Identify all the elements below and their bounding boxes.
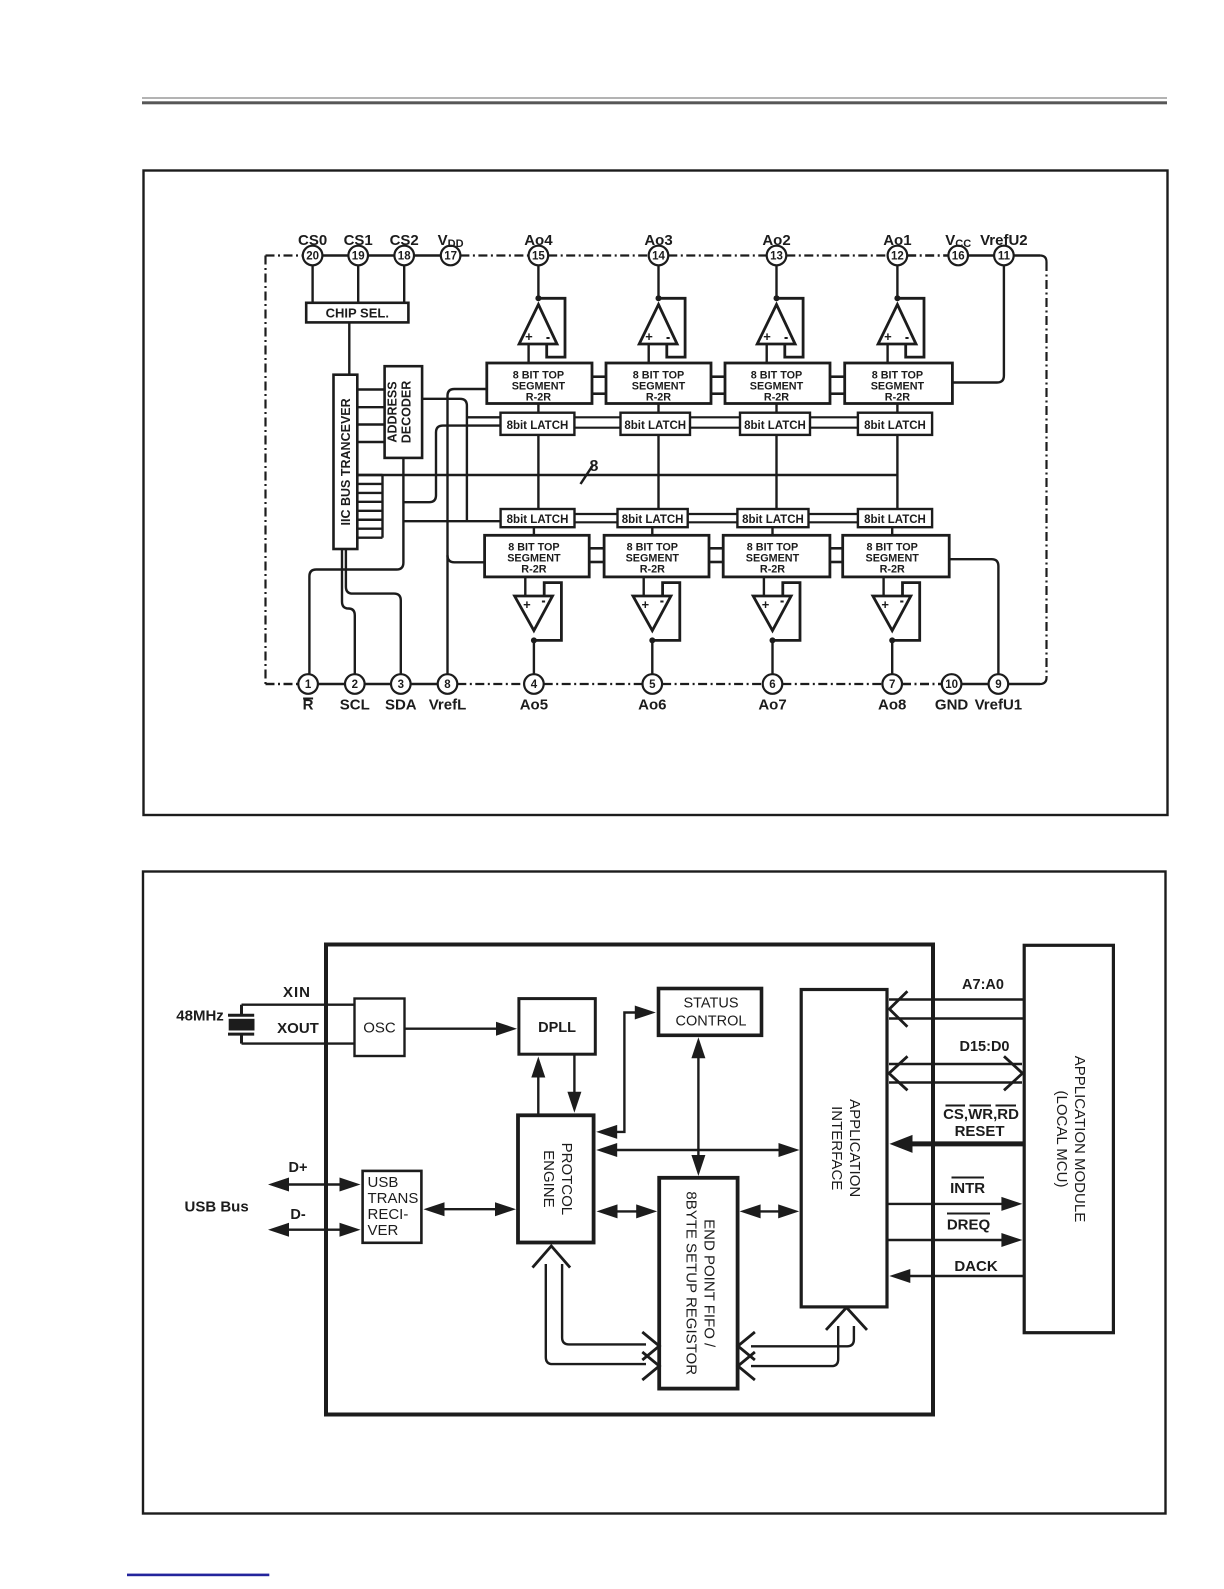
svg-text:VrefU2: VrefU2 [980, 232, 1028, 249]
svg-text:11: 11 [998, 251, 1011, 263]
svg-text:VrefU1: VrefU1 [975, 697, 1023, 714]
svg-text:D-: D- [290, 1207, 305, 1223]
pin 5 Ao6 [638, 674, 666, 713]
pin 13 Ao2 [762, 232, 790, 265]
block 8bit LATCH (top row, col 1) [501, 413, 575, 435]
svg-text:Ao1: Ao1 [883, 232, 911, 249]
wire latch to R-2R (bottom col 1) [533, 527, 535, 535]
svg-text:TRANS: TRANS [368, 1190, 419, 1207]
svg-text:XOUT: XOUT [277, 1020, 319, 1037]
pin 15 Ao4 [524, 232, 553, 265]
svg-text:D+: D+ [289, 1160, 308, 1176]
svg-text:13: 13 [770, 251, 783, 263]
svg-text:(LOCAL MCU): (LOCAL MCU) [1053, 1091, 1070, 1188]
svg-text:RECI-: RECI- [368, 1206, 409, 1223]
wire protocol engine to endpoint fifo [597, 1204, 658, 1218]
pin 16 Vcc (power) [945, 232, 971, 265]
op-amp A7 (output buffer Ao7) [753, 577, 800, 674]
svg-text:4: 4 [531, 679, 538, 691]
wire R-2R to latch (col 3) [775, 404, 777, 413]
wire XIN [242, 984, 355, 1005]
svg-text:PROTCOL: PROTCOL [558, 1143, 575, 1216]
pin 9 VrefU1 [975, 674, 1023, 713]
wire latch to lower latch through bus (col 4) [896, 435, 898, 509]
wire top rail [322, 256, 1046, 685]
block 8bit LATCH (bottom row, col 4) [858, 509, 932, 527]
svg-text:DACK: DACK [954, 1258, 997, 1275]
block PROTCOL ENGINE [518, 1115, 594, 1242]
wire CS0 to chip select [311, 265, 313, 303]
latch chain links (bottom row) [575, 514, 858, 522]
svg-text:15: 15 [532, 251, 545, 263]
svg-text:19: 19 [352, 251, 365, 263]
svg-text:8bit LATCH: 8bit LATCH [624, 420, 686, 432]
svg-text:5: 5 [649, 679, 656, 691]
wire SDA from IIC to pin 3 [346, 549, 401, 674]
op-amp A4 (output buffer Ao1) [878, 265, 924, 363]
wire protocol engine to application interface [596, 1143, 799, 1157]
svg-text:12: 12 [891, 251, 904, 263]
block 8 BIT TOP SEGMENT R-2R (top row, col 1) [487, 363, 592, 404]
op-amp A5 (output buffer Ao5) [515, 577, 562, 674]
svg-text:CHIP SEL.: CHIP SEL. [326, 306, 389, 321]
svg-text:9: 9 [995, 679, 1001, 691]
wire latch to R-2R (bottom col 4) [891, 527, 893, 535]
svg-text:7: 7 [889, 679, 895, 691]
svg-text:R-2R: R-2R [764, 392, 789, 404]
pin 3 SDA [385, 674, 417, 713]
svg-text:8BYTE SETUP REGISTOR: 8BYTE SETUP REGISTOR [682, 1191, 699, 1375]
svg-text:END POINT FIFO /: END POINT FIFO / [700, 1219, 717, 1348]
svg-text:R-2R: R-2R [640, 564, 665, 576]
pin 1 R (reset, active low) [298, 674, 318, 713]
block 8bit LATCH (top row, col 4) [858, 413, 932, 435]
svg-text:17: 17 [444, 251, 457, 263]
wire USB transceiver to protocol engine [424, 1202, 517, 1216]
pin 10 GND (ground) [935, 674, 969, 713]
R-2R chain links (top row) [592, 377, 845, 394]
svg-text:XIN: XIN [283, 984, 311, 1001]
svg-text:6: 6 [769, 679, 775, 691]
chip outline (dash-dot boundary) [266, 256, 303, 685]
block 8bit LATCH (top row, col 2) [621, 413, 691, 435]
svg-text:Ao2: Ao2 [762, 232, 790, 249]
block APPLICATION INTERFACE [801, 990, 887, 1307]
svg-text:3: 3 [398, 679, 404, 691]
wire CS1 to chip select [357, 265, 359, 303]
svg-text:STATUS: STATUS [683, 996, 738, 1012]
svg-text:18: 18 [398, 251, 411, 263]
svg-text:INTR: INTR [950, 1180, 985, 1197]
wire OSC to DPLL [405, 1022, 518, 1036]
block 8bit LATCH (bottom row, col 3) [737, 509, 808, 527]
svg-text:R-2R: R-2R [880, 564, 905, 576]
wire D- [268, 1207, 361, 1237]
wire chip select to IIC bus tranceiver [348, 322, 350, 374]
pin 2 SCL [340, 674, 370, 713]
pin 20 CS0 [298, 232, 327, 265]
op-amp A6 (output buffer Ao6) [633, 577, 680, 674]
crystal X1 48MHz [176, 1005, 254, 1044]
bus A7:A0 [889, 977, 1024, 1027]
pin 17 VDD (power) [438, 232, 464, 265]
svg-text:DPLL: DPLL [538, 1020, 576, 1036]
USB controller chip boundary box [326, 945, 933, 1415]
svg-text:Ao3: Ao3 [644, 232, 672, 249]
pin 14 Ao3 [644, 232, 672, 265]
wires IIC to address decoder (4 lines) [357, 390, 384, 443]
svg-text:8bit LATCH: 8bit LATCH [507, 420, 569, 432]
block 8bit LATCH (bottom row, col 1) [501, 509, 575, 527]
svg-text:RESET: RESET [955, 1123, 1005, 1140]
svg-text:DREQ: DREQ [947, 1217, 991, 1234]
svg-text:Ao5: Ao5 [520, 697, 548, 714]
svg-text:8bit LATCH: 8bit LATCH [622, 514, 684, 526]
svg-text:8: 8 [444, 679, 451, 691]
pin 8 VrefL [429, 674, 467, 713]
svg-text:20: 20 [306, 251, 319, 263]
wire endpoint fifo to protocol engine (hook arrow) [533, 1246, 660, 1380]
wire latch to R-2R (bottom col 3) [771, 527, 773, 535]
svg-text:10: 10 [945, 679, 958, 691]
svg-text:2: 2 [352, 679, 358, 691]
block 8bit LATCH (top row, col 3) [740, 413, 810, 435]
svg-text:+: + [642, 597, 650, 612]
svg-text:8bit LATCH: 8bit LATCH [864, 420, 926, 432]
label USB Bus [185, 1199, 249, 1216]
svg-text:SDA: SDA [385, 697, 417, 714]
wire main 8-bit bus [357, 474, 897, 476]
wire XOUT [242, 1020, 355, 1044]
block 8 BIT TOP SEGMENT R-2R (top row, col 3) [725, 363, 830, 404]
block STATUS CONTROL [659, 989, 762, 1036]
header double rule [142, 98, 1167, 104]
wire protocol engine to status control [596, 1006, 656, 1139]
wire endpoint fifo to application interface [740, 1204, 800, 1218]
pin 7 Ao8 [878, 674, 906, 713]
svg-text:VrefL: VrefL [429, 697, 467, 714]
pin 19 CS1 [344, 232, 373, 265]
block 8 BIT TOP SEGMENT R-2R (bottom row, col 4) [843, 535, 950, 577]
wire bundle 8-bit bus fan-out from IIC [357, 475, 382, 538]
pin 4 Ao5 [520, 674, 548, 713]
svg-text:+: + [523, 597, 531, 612]
block U1 IIC BUS TRANCEVER [334, 375, 358, 549]
svg-text:Ao4: Ao4 [524, 232, 553, 249]
block 8 BIT TOP SEGMENT R-2R (bottom row, col 3) [723, 535, 830, 577]
label CS,WR,RD (active low) [943, 1106, 1019, 1124]
svg-text:R-2R: R-2R [885, 392, 910, 404]
wire VrefL rail to R-2R segments [448, 389, 487, 674]
wire R-2R to latch (col 1) [537, 404, 539, 413]
svg-text:Ao8: Ao8 [878, 697, 906, 714]
wire address decoder bottom to R pin and lower latch row [309, 458, 500, 674]
svg-text:APPLICATION: APPLICATION [846, 1099, 863, 1197]
svg-text:+: + [762, 597, 770, 612]
block 8 BIT TOP SEGMENT R-2R (bottom row, col 1) [485, 535, 590, 577]
block OSC [355, 999, 405, 1057]
wire status control to endpoint fifo (double arrow) [691, 1037, 705, 1176]
svg-text:CONTROL: CONTROL [676, 1014, 747, 1030]
wire DREQ (active low) [888, 1214, 1023, 1248]
op-amp A2 (output buffer Ao3) [639, 265, 685, 363]
svg-text:ADDRESS: ADDRESS [385, 381, 399, 442]
pin 6 Ao7 [758, 674, 786, 713]
bus D15:D0 [889, 1039, 1023, 1090]
wire protocol engine to DPLL (up arrow) [531, 1057, 545, 1116]
block USB TRANSCEIVER [363, 1171, 422, 1243]
svg-text:R-2R: R-2R [646, 392, 671, 404]
svg-text:+: + [645, 329, 653, 344]
svg-text:CS2: CS2 [390, 232, 419, 249]
svg-text:INTERFACE: INTERFACE [828, 1106, 845, 1190]
block APPLICATION MODULE (LOCAL MCU) [1024, 945, 1113, 1332]
block DPLL [519, 999, 595, 1055]
svg-text:8bit LATCH: 8bit LATCH [507, 514, 569, 526]
svg-text:USB Bus: USB Bus [185, 1199, 249, 1216]
svg-text:+: + [525, 329, 533, 344]
figure 1 frame (DAC block diagram) [144, 171, 1168, 816]
block 8 BIT TOP SEGMENT R-2R (top row, col 4) [845, 363, 953, 404]
svg-text:APPLICATION MODULE: APPLICATION MODULE [1071, 1056, 1088, 1222]
svg-text:+: + [763, 329, 771, 344]
wire R-2R to latch (col 4) [896, 404, 898, 413]
svg-text:A7:A0: A7:A0 [962, 977, 1004, 993]
wire latch to R-2R (bottom col 2) [651, 527, 653, 535]
op-amp A8 (output buffer Ao8) [873, 577, 920, 674]
wire endpoint fifo to application interface (hook arrow) [738, 1308, 867, 1381]
pin 11 VrefU2 [980, 232, 1028, 265]
wire D+ [268, 1160, 361, 1192]
wire latch to lower latch through bus (col 3) [775, 435, 777, 509]
svg-text:8: 8 [590, 458, 599, 475]
svg-text:R-2R: R-2R [521, 564, 546, 576]
figure 2 frame (USB controller block diagram) [143, 872, 1166, 1514]
op-amp A3 (output buffer Ao2) [757, 265, 803, 363]
svg-text:VDD: VDD [438, 232, 464, 250]
svg-text:+: + [881, 597, 889, 612]
block U2 ADDRESS DECODER [385, 366, 423, 458]
wire DPLL to protocol engine (down arrow) [567, 1054, 581, 1113]
block END POINT FIFO / 8BYTE SETUP REGISTOR [659, 1178, 737, 1389]
wire VrefU2 to R-2R segment 4 [952, 265, 1004, 382]
svg-text:CS0: CS0 [298, 232, 327, 249]
svg-text:48MHz: 48MHz [176, 1008, 224, 1025]
svg-text:8bit LATCH: 8bit LATCH [864, 514, 926, 526]
svg-text:CS,WR,RD: CS,WR,RD [943, 1106, 1019, 1123]
svg-text:16: 16 [952, 251, 965, 263]
svg-text:GND: GND [935, 697, 969, 714]
svg-text:VCC: VCC [945, 232, 971, 250]
block CHIP SEL. [306, 303, 408, 323]
svg-text:IIC BUS TRANCEVER: IIC BUS TRANCEVER [339, 398, 353, 525]
R-2R chain links (bottom row) [589, 548, 843, 562]
wire latch to lower latch through bus (col 1) [537, 435, 539, 509]
op-amp A1 (output buffer Ao4) [519, 265, 565, 363]
svg-text:ENGINE: ENGINE [540, 1150, 557, 1208]
wire INTR (active low) [888, 1178, 1023, 1211]
svg-text:14: 14 [652, 251, 665, 263]
wire SCL from IIC to pin 2 [342, 549, 355, 674]
svg-text:8bit LATCH: 8bit LATCH [744, 420, 806, 432]
svg-text:USB: USB [368, 1174, 399, 1191]
wire RESET (bold arrow) [890, 1123, 1025, 1153]
wire bottom rail [266, 683, 1041, 685]
bus width label 8 with slash [581, 458, 599, 484]
block 8 BIT TOP SEGMENT R-2R (top row, col 2) [606, 363, 711, 404]
wire VrefU1 to bottom R-2R segment 4 [949, 559, 998, 674]
svg-text:R-2R: R-2R [760, 564, 785, 576]
pin 18 CS2 [390, 232, 419, 265]
svg-text:D15:D0: D15:D0 [960, 1039, 1010, 1055]
latch chain links (top row) [574, 417, 858, 427]
wire latch1 enable (W2) [403, 426, 500, 503]
svg-text:8bit LATCH: 8bit LATCH [742, 514, 804, 526]
footer rule [127, 1574, 269, 1577]
wire CS2 to chip select [403, 265, 405, 303]
wire DACK [889, 1258, 1024, 1283]
svg-text:VER: VER [368, 1222, 399, 1239]
pin 12 Ao1 [883, 232, 911, 265]
svg-text:SCL: SCL [340, 697, 370, 714]
block 8bit LATCH (bottom row, col 2) [618, 509, 688, 527]
svg-text:OSC: OSC [363, 1020, 396, 1037]
svg-text:CS1: CS1 [344, 232, 373, 249]
svg-text:DECODER: DECODER [399, 381, 413, 444]
wire address decoder to latch column (W1) [422, 399, 500, 521]
wire latch to lower latch through bus (col 2) [657, 435, 659, 509]
svg-text:R-2R: R-2R [526, 392, 551, 404]
svg-text:Ao7: Ao7 [758, 697, 786, 714]
block 8 BIT TOP SEGMENT R-2R (bottom row, col 2) [604, 535, 709, 577]
svg-text:Ao6: Ao6 [638, 697, 666, 714]
svg-text:+: + [884, 329, 892, 344]
svg-text:1: 1 [305, 679, 312, 691]
wire R-2R to latch (col 2) [657, 404, 659, 413]
